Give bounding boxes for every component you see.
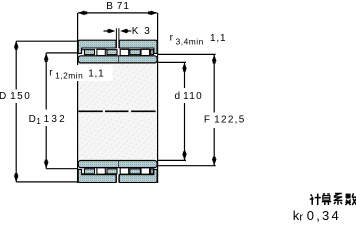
svg-text:0,34: 0,34 bbox=[307, 208, 341, 223]
svg-text:r: r bbox=[299, 211, 303, 223]
svg-text:1,1: 1,1 bbox=[88, 68, 104, 79]
svg-text:122,5: 122,5 bbox=[214, 115, 246, 126]
svg-text:3,4min: 3,4min bbox=[176, 36, 204, 46]
svg-text:r: r bbox=[170, 33, 174, 44]
svg-text:F: F bbox=[204, 115, 210, 126]
svg-text:1,2min: 1,2min bbox=[55, 71, 83, 81]
svg-text:D: D bbox=[0, 91, 6, 102]
svg-text:1,1: 1,1 bbox=[210, 33, 226, 44]
svg-text:1: 1 bbox=[36, 117, 41, 126]
svg-text:K: K bbox=[132, 26, 139, 37]
svg-text:D: D bbox=[29, 114, 36, 125]
svg-text:110: 110 bbox=[183, 91, 203, 102]
svg-text:d: d bbox=[175, 91, 181, 102]
svg-text:3: 3 bbox=[144, 26, 150, 37]
svg-text:71: 71 bbox=[117, 1, 130, 12]
svg-text:150: 150 bbox=[10, 91, 31, 102]
svg-text:B: B bbox=[106, 1, 113, 12]
svg-text:132: 132 bbox=[44, 114, 67, 125]
